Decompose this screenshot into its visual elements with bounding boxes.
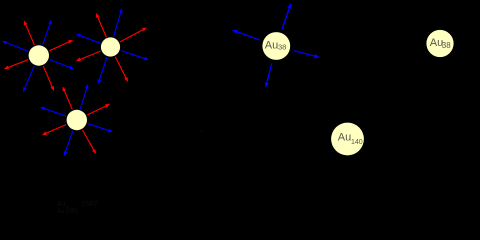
ligand arrow NP2-1 (red) — [96, 13, 106, 37]
svg-text:Au: Au — [338, 132, 351, 144]
ligand arrow NP2-4 (blue) — [121, 51, 149, 61]
ligand arrow NP2-3 (red) — [120, 28, 147, 42]
ligand arrow NP1-2 (blue) — [43, 20, 52, 45]
ligand arrow NP3-4 (blue) — [88, 124, 113, 133]
ligand arrow NP1-1 (red) — [24, 21, 34, 45]
svg-text:Au: Au — [57, 201, 66, 208]
nanoparticle NP2 — [101, 37, 120, 56]
nanocluster Au38 (left) — [262, 32, 290, 60]
ligand arrow NP2-6 (blue) — [98, 57, 107, 84]
ligand arrow NP2-7 (red) — [76, 51, 101, 61]
ligand arrow NP2-8 (blue) — [76, 34, 100, 43]
ligand arrow NP3-2 (blue) — [80, 84, 88, 109]
svg-text:~: ~ — [200, 127, 205, 136]
ligand arrow NP3-8 (blue) — [40, 107, 66, 117]
ligand arrow NP3-5 (red) — [83, 130, 97, 154]
nanocluster Au140 — [331, 123, 364, 156]
ligand arrow Au38a-2 (blue) — [232, 30, 259, 40]
ligand arrow NP3-3 (red) — [87, 104, 110, 115]
svg-text:Au: Au — [265, 39, 278, 51]
ligand arrow NP2-5 (red) — [115, 57, 128, 82]
ligand arrow NP3-6 (blue) — [64, 131, 73, 156]
ligand arrow NP1-5 (red) — [43, 66, 54, 91]
nanoparticle NP1 — [29, 45, 49, 65]
nanoparticle NP3 — [67, 110, 87, 130]
label Au140 — [338, 132, 363, 146]
label Au38 (left) — [265, 39, 287, 51]
ligand arrow NP1-8 (blue) — [2, 41, 28, 51]
ligand arrow NP2-2 (blue) — [114, 8, 123, 37]
ligand arrow NP1-3 (red) — [49, 40, 73, 51]
nanocluster Au38 (right) — [426, 30, 453, 57]
ligand arrow Au38a-1 (blue) — [282, 3, 291, 29]
svg-text:140: 140 — [351, 139, 363, 146]
ligand arrow NP1-6 (blue) — [23, 66, 34, 92]
ligand arrow NP3-7 (red) — [42, 125, 66, 135]
svg-text:(SR): (SR) — [82, 201, 96, 208]
svg-text:38: 38 — [442, 41, 451, 50]
svg-text:38: 38 — [278, 43, 286, 52]
ligand arrow Au38a-4 (blue) — [265, 63, 272, 88]
svg-text:Au (SR): Au (SR) — [57, 209, 78, 215]
faint formula text bottom-left — [57, 198, 99, 215]
ligand arrow Au38a-3 (blue) — [294, 51, 320, 59]
ligand arrow NP1-7 (red) — [4, 60, 28, 69]
ligand arrow NP1-4 (blue) — [50, 60, 75, 70]
ligand arrow NP3-1 (red) — [63, 87, 73, 110]
label Au38 (right) — [430, 37, 451, 50]
